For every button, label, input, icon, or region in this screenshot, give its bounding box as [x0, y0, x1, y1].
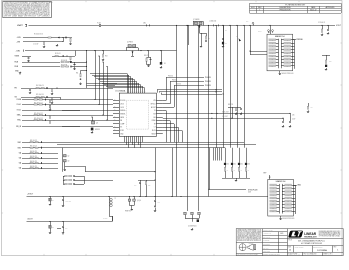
svg-text:Q4 PMOS: Q4 PMOS	[127, 42, 133, 44]
svg-text:UVLO: UVLO	[120, 103, 124, 105]
svg-text:PLLIN: PLLIN	[152, 130, 156, 132]
svg-text:SENSE-: SENSE-	[120, 113, 126, 115]
svg-text:VIN: VIN	[153, 100, 155, 102]
svg-text:R21 49.9k C12: R21 49.9k C12	[34, 113, 43, 115]
svg-text:CMC: CMC	[143, 22, 146, 24]
svg-text:4x DMMT5401: 4x DMMT5401	[188, 225, 197, 227]
svg-text:SYNC/PLLIN: SYNC/PLLIN	[248, 189, 258, 191]
svg-text:SS: SS	[120, 127, 122, 129]
svg-text:06-12-12: 06-12-12	[310, 9, 316, 11]
svg-text:Q5,Q6: Q5,Q6	[137, 200, 141, 202]
svg-text:TG: TG	[154, 110, 156, 112]
svg-text:SW1: SW1	[18, 142, 22, 144]
svg-text:DESCRIPTION: DESCRIPTION	[280, 7, 292, 9]
svg-text:+VIN: +VIN	[17, 37, 22, 39]
svg-text:PGOOD: PGOOD	[120, 100, 125, 102]
svg-text:PGFB: PGFB	[17, 99, 21, 101]
svg-text:0.1uF: 0.1uF	[292, 119, 296, 121]
svg-text:R21 49.9k C12: R21 49.9k C12	[34, 102, 43, 104]
svg-text:R34 2k C23: R34 2k C23	[30, 166, 37, 168]
svg-text:R31 10 C21: R31 10 C21	[30, 146, 37, 148]
svg-text:R15 10k C10: R15 10k C10	[36, 94, 44, 96]
svg-text:HOT SWAP CONTROLLER: HOT SWAP CONTROLLER	[301, 242, 323, 245]
svg-text:TP1: TP1	[246, 21, 249, 23]
svg-text:BOOST: BOOST	[151, 107, 156, 109]
svg-text:CHECKED: CHECKED	[263, 240, 269, 242]
svg-text:Q7 SiR826: Q7 SiR826	[193, 19, 200, 21]
svg-text:R34 2k C23: R34 2k C23	[30, 151, 37, 153]
svg-text:R18: R18	[329, 61, 332, 63]
svg-text:R44: R44	[311, 107, 314, 109]
svg-text:U1 LT3845A: U1 LT3845A	[115, 90, 126, 93]
svg-text:MOLEX 87831-1020: MOLEX 87831-1020	[282, 73, 294, 75]
svg-text:OVLO: OVLO	[17, 110, 22, 112]
svg-text:TECHNOLOGY: TECHNOLOGY	[304, 236, 317, 238]
svg-text:FB: FB	[120, 120, 122, 122]
svg-text:+VOUT: +VOUT	[27, 194, 34, 196]
svg-text:C2 22uF C3: C2 22uF C3	[318, 22, 325, 24]
svg-text:D11: D11	[234, 164, 237, 166]
svg-text:D12: D12	[241, 164, 244, 166]
svg-text:Q1: Q1	[96, 122, 98, 124]
svg-text:RT: RT	[154, 123, 156, 125]
svg-text:Q3: Q3	[68, 161, 70, 163]
svg-text:Q2: Q2	[68, 156, 70, 158]
svg-text:PGOOD: PGOOD	[205, 77, 212, 79]
svg-text:SYNC: SYNC	[120, 130, 124, 132]
svg-text:VREF: VREF	[263, 173, 267, 175]
svg-text:SHEET 1 OF 1: SHEET 1 OF 1	[323, 254, 332, 256]
svg-text:R34 2k C23: R34 2k C23	[30, 156, 37, 158]
svg-text:R11: R11	[76, 73, 79, 75]
svg-text:R13: R13	[105, 56, 108, 58]
svg-text:R1 100k 1% D1: R1 100k 1% D1	[34, 33, 43, 35]
svg-text:FMMT718: FMMT718	[125, 210, 131, 212]
svg-text:PGND: PGND	[152, 120, 156, 122]
svg-text:R31 10 C21: R31 10 C21	[30, 140, 37, 142]
svg-text:C1 0.1uF: C1 0.1uF	[33, 44, 39, 46]
svg-text:COMP: COMP	[120, 123, 124, 125]
svg-text:R5 1k D3: R5 1k D3	[55, 53, 61, 55]
svg-text:PGOOD: PGOOD	[205, 85, 212, 87]
svg-text:R21 49.9k C12: R21 49.9k C12	[34, 97, 43, 99]
svg-text:R21 49.9k C12: R21 49.9k C12	[34, 118, 43, 120]
svg-text:OVLO: OVLO	[120, 107, 124, 109]
svg-text:R34 2k C23: R34 2k C23	[30, 161, 37, 163]
svg-text:PGOOD: PGOOD	[168, 76, 173, 78]
svg-text:SNS+: SNS+	[17, 115, 21, 117]
svg-text:MOLEX 87831-1020: MOLEX 87831-1020	[282, 218, 294, 220]
svg-text:Drawing: November 27, 2012: Drawing: November 27, 2012	[263, 254, 280, 256]
svg-text:VBATT: VBATT	[17, 24, 24, 27]
svg-text:PGOOD: PGOOD	[172, 80, 177, 82]
svg-text:NOTICE: NOTICE	[249, 243, 254, 245]
svg-text:BG: BG	[154, 117, 156, 119]
svg-text:3W_IN: 3W_IN	[16, 126, 22, 128]
svg-text:R8 10k R9: R8 10k R9	[61, 64, 67, 66]
svg-text:SENSE+: SENSE+	[120, 110, 126, 112]
svg-text:C35: C35	[292, 114, 295, 116]
svg-text:D13: D13	[248, 164, 251, 166]
svg-text:D10: D10	[227, 164, 230, 166]
svg-text:PRODUCTION: PRODUCTION	[280, 9, 292, 11]
svg-text:CT: CT	[154, 127, 156, 129]
svg-text:SW1: SW1	[18, 147, 22, 149]
svg-text:C41: C41	[134, 185, 137, 187]
svg-text:-VOUT: -VOUT	[27, 219, 33, 221]
svg-text:+VIN: +VIN	[16, 50, 21, 52]
svg-text:C45 47uF: C45 47uF	[66, 200, 72, 202]
svg-text:PC REVISION HISTORY: PC REVISION HISTORY	[285, 4, 306, 6]
svg-text:2048: 2048	[248, 192, 251, 194]
svg-text:DC1959A: DC1959A	[317, 249, 327, 252]
svg-text:BSS123: BSS123	[95, 129, 100, 131]
svg-text:MODE: MODE	[152, 133, 156, 135]
svg-text:SIZE: SIZE	[288, 247, 291, 249]
svg-text:C46: C46	[65, 228, 68, 230]
svg-text:GND: GND	[120, 133, 123, 135]
svg-text:SYNC OUT: SYNC OUT	[222, 111, 229, 113]
svg-text:UVLO: UVLO	[17, 104, 22, 106]
svg-text:PWRGD: PWRGD	[296, 39, 303, 41]
svg-text:C43: C43	[158, 201, 161, 203]
svg-text:TP2,3: TP2,3	[258, 31, 262, 33]
svg-text:SNS-: SNS-	[17, 120, 21, 122]
svg-text:R16 C8: R16 C8	[144, 55, 149, 57]
svg-text:R41 C31: R41 C31	[228, 104, 233, 106]
svg-text:TITLE:: TITLE:	[288, 240, 293, 242]
svg-text:R51: R51	[148, 185, 151, 187]
svg-text:CLK OUT: CLK OUT	[222, 116, 228, 118]
svg-text:INTVCC: INTVCC	[151, 103, 156, 105]
svg-text:PGOOD: PGOOD	[176, 84, 181, 86]
svg-text:D5: D5	[164, 63, 166, 65]
svg-text:R14 100k C9: R14 100k C9	[36, 85, 44, 87]
svg-text:PGOOD: PGOOD	[205, 81, 212, 83]
svg-text:DEMO CIRCUIT: DEMO CIRCUIT	[313, 247, 322, 249]
svg-text:1: 1	[259, 9, 260, 11]
svg-text:R8 10k R9: R8 10k R9	[61, 60, 67, 62]
svg-text:LINEAR: LINEAR	[304, 232, 317, 236]
